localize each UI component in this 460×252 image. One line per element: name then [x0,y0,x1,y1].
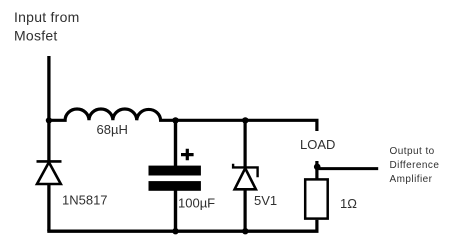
node D junction dot (output tap) [314,164,321,171]
wire capacitor bottom lead [174,190,177,231]
node junction dot zener bottom [242,228,248,234]
svg-text:5V1: 5V1 [254,193,277,208]
inductor L1 68µH with top rail wire [49,109,317,131]
resistor R1 load body [305,179,328,218]
svg-text:Amplifier: Amplifier [390,174,433,185]
node B junction dot (rail/capacitor top) [172,117,178,123]
svg-text:Input from: Input from [14,9,80,25]
wire capacitor top lead [174,120,177,166]
svg-text:Output to: Output to [390,146,435,157]
node junction dot capacitor bottom [172,228,178,234]
wire resistor bottom lead [315,220,318,231]
svg-text:100µF: 100µF [178,195,215,210]
zener D2 cathode bar with ticks [233,164,258,178]
svg-text:1Ω: 1Ω [340,196,357,211]
wire zener top lead [244,120,247,167]
wire output tap horizontal [317,167,378,170]
svg-text:LOAD: LOAD [300,137,335,152]
wire bottom rail [47,229,318,232]
node input: label "Input from Mosfet" [14,9,80,44]
capacitor C1 plus sign [181,149,194,161]
svg-text:68µH: 68µH [97,122,128,137]
node A junction dot (input/inductor/diode) [46,117,52,123]
node output: label "Output to Difference Amplifier" [390,146,440,185]
diode D1 1N5817 triangle [37,162,61,184]
wire load branch lower stub [315,161,318,179]
wire input vertical drop [47,56,50,161]
wire zener to bottom rail [244,189,247,231]
svg-text:Difference: Difference [390,160,440,171]
diode D1 1N5817 cathode bar [37,160,62,163]
svg-text:Mosfet: Mosfet [14,28,58,44]
capacitor C1 bottom plate [149,181,201,191]
node C junction dot (rail/zener top) [242,117,248,123]
capacitor C1 top plate [149,166,201,176]
svg-text:1N5817: 1N5817 [62,192,108,207]
zener D2 triangle [235,168,256,189]
wire diode to bottom rail [47,184,50,231]
